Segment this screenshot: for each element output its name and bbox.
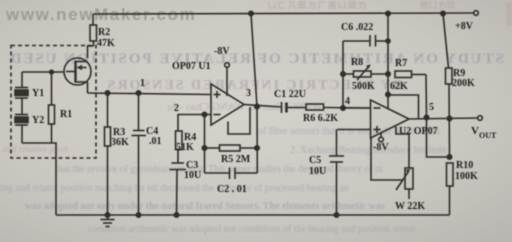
node top-rail junction B [386, 11, 390, 15]
U2 -8V supply pin [379, 132, 384, 142]
wire gate [22, 71, 65, 73]
node dot 4 [341, 106, 345, 110]
transistor Q1 JFET [64, 58, 91, 93]
svg-text:47K: 47K [97, 38, 115, 49]
svg-text:R2: R2 [98, 27, 110, 38]
op-amp U2 [371, 100, 410, 138]
faint reversed marks top edge [268, 0, 512, 26]
node dot R3 [105, 91, 109, 95]
svg-text:was adopted not only under the: was adopted not only under the natural f… [25, 201, 385, 212]
capacitor C3 [170, 163, 187, 215]
svg-text:OUT: OUT [479, 131, 497, 140]
node dot R3 bottom [105, 213, 109, 217]
node dot inverting/R5 [202, 112, 206, 116]
wire inverting node down [204, 115, 206, 174]
svg-text:-8V: -8V [214, 46, 230, 57]
resistor R3 [105, 93, 111, 215]
capacitor C4 [132, 93, 147, 215]
node gate/R1 junction [50, 70, 54, 74]
svg-text:R5 2M: R5 2M [221, 154, 251, 165]
svg-text:R7: R7 [395, 58, 407, 69]
svg-text:36K: 36K [111, 137, 129, 148]
svg-text:C5: C5 [309, 155, 321, 166]
U1 offset feedback loop [228, 107, 250, 134]
node dot mid lower [386, 92, 390, 96]
node dot R10 top [447, 155, 451, 159]
svg-text:R6 6.2K: R6 6.2K [303, 113, 338, 124]
wire +8V rail down through feedback to U2 V+ [387, 14, 389, 110]
svg-text:⽤⼐⼒⽥: ⽤⼐⼒⽥ [419, 0, 456, 10]
svg-text:51K: 51K [176, 142, 194, 153]
node dot R5 right [255, 146, 259, 150]
dashed enclosure box [11, 46, 96, 159]
wire drain to R2 [88, 46, 94, 58]
svg-text:C2 . 01: C2 . 01 [217, 184, 247, 195]
svg-text:.01: .01 [149, 136, 162, 147]
+8V terminal [474, 11, 479, 16]
op-amp U1 [211, 84, 244, 125]
svg-text:C1 22U: C1 22U [274, 89, 306, 100]
svg-text:R10: R10 [456, 160, 473, 171]
resistor R7 [395, 71, 426, 78]
resistor R10 [447, 163, 454, 215]
svg-text:2: 2 [174, 103, 179, 114]
resistor R2 [90, 14, 97, 46]
svg-text:62K: 62K [390, 81, 408, 92]
wire node5 down to R10 top [427, 118, 450, 158]
svg-text:OP07 U1: OP07 U1 [172, 61, 211, 72]
svg-text:3: 3 [246, 88, 251, 99]
node top-rail junction A [249, 11, 253, 15]
node top-rail junction C [441, 11, 445, 15]
resistor R4 [176, 131, 183, 163]
svg-text:10U: 10U [309, 166, 326, 177]
svg-text:4: 4 [345, 96, 350, 107]
svg-text:-8V: -8V [373, 142, 389, 153]
node dot output 3 [255, 104, 259, 108]
svg-text:U2 OP07: U2 OP07 [399, 126, 438, 137]
wire to U2 non-inverting from C5 [337, 129, 371, 131]
node dot R9/Vout crossing [447, 116, 451, 120]
wire U2 output node 5 to Vout [409, 118, 478, 119]
crystal Y1 [15, 72, 28, 98]
svg-text:ing and relativ position match: ing and relativ position matching by uti… [0, 183, 349, 194]
node dot C3 bottom [174, 213, 178, 217]
wire top rail to R5/C2 (slanted) [251, 14, 257, 174]
watermark www.newMaker.com [5, 5, 196, 24]
svg-text:W 22K: W 22K [395, 201, 425, 212]
potentiometer W wiring [371, 138, 403, 180]
node dot 5 [424, 115, 428, 119]
svg-text:R1: R1 [60, 109, 72, 120]
potentiometer R8 [343, 65, 388, 81]
capacitor C6 [343, 35, 388, 47]
node dot C6 right [386, 39, 390, 43]
svg-text:V: V [471, 125, 479, 137]
node dot C4 [136, 91, 140, 95]
Vout terminal [478, 116, 483, 121]
wire node4 up to feedback [342, 41, 344, 108]
svg-text:⼐⼕⼏⽥⼒⼚⽤⼐⽥⼒: ⼐⼕⼏⽥⼒⼚⽤⼐⽥⼒ [268, 0, 368, 10]
svg-text:10U: 10U [184, 170, 201, 181]
resistor R5 [205, 145, 258, 151]
node dot R8/R7 mid [386, 72, 390, 76]
resistor R6 [306, 104, 371, 110]
svg-text:and relative posit: and relative posit [2, 145, 68, 155]
wire node 2 (to U1 inverting) [178, 115, 211, 132]
svg-text:Y2: Y2 [32, 115, 44, 126]
wire node 1 (source to U1+) [88, 93, 212, 95]
node dot R8 left [341, 72, 345, 76]
ground [101, 215, 115, 227]
U1 -8V supply pin [225, 63, 230, 96]
resistor R1 [49, 72, 55, 143]
wire U1 output node 3 [244, 105, 282, 108]
node dot C5 bottom [334, 213, 338, 217]
crystal Y2 [15, 98, 28, 143]
svg-text:R8: R8 [351, 57, 363, 68]
svg-text:C6 .022: C6 .022 [341, 22, 373, 33]
svg-text:+8V: +8V [455, 21, 474, 32]
svg-text:condition arithmetic was adopt: condition arithmetic was adopted not con… [88, 224, 416, 235]
wire to U2 inverting [343, 107, 371, 109]
top +8V rail [93, 13, 473, 14]
svg-text:200K: 200K [452, 78, 475, 89]
resistor R9 [443, 14, 452, 158]
node dot C4 bottom [136, 213, 140, 217]
ghost bleed-through text [0, 51, 504, 235]
potentiometer W [396, 127, 413, 200]
svg-text:500K: 500K [352, 81, 375, 92]
capacitor C1 [282, 102, 307, 113]
capacitor C2 [205, 168, 258, 180]
capacitor C5 [329, 130, 344, 216]
wire mid to output [388, 95, 419, 119]
svg-text:5: 5 [429, 102, 434, 113]
svg-text:100K: 100K [455, 171, 478, 182]
wire crystal bottom to ground rail [22, 143, 56, 215]
svg-text:Y1: Y1 [32, 88, 44, 99]
bottom ground rail [56, 214, 450, 216]
wire R7 right down to output (node 5) [425, 75, 428, 118]
node dot R5 left [202, 146, 206, 150]
svg-text:1: 1 [140, 78, 145, 89]
